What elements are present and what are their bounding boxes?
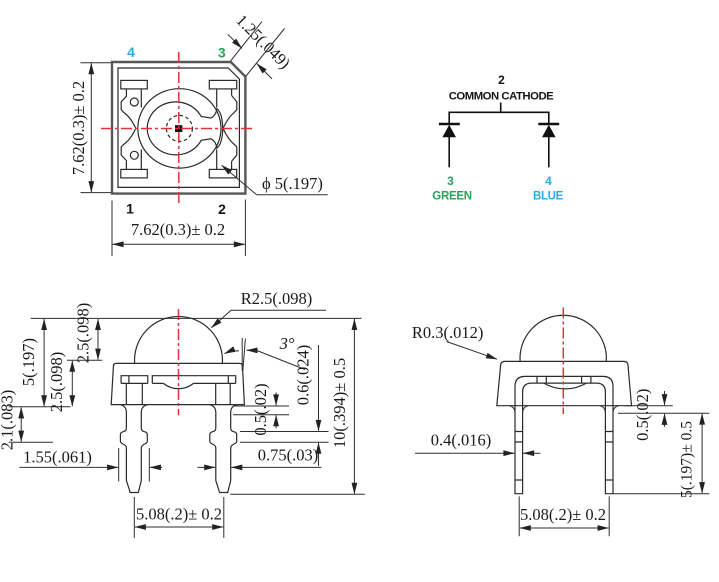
diode D2 triangle (blue LED) <box>542 125 556 137</box>
svg-text:1.55(.061): 1.55(.061) <box>23 448 92 467</box>
red centerline (side) <box>562 308 564 415</box>
package body (front) <box>111 363 244 404</box>
svg-text:7.62(0.3)± 0.2: 7.62(0.3)± 0.2 <box>69 81 88 175</box>
lens outline ellipse <box>138 89 221 168</box>
package body (side) <box>497 361 632 405</box>
diode D1 cathode bar <box>439 123 460 125</box>
svg-text:3: 3 <box>447 174 454 188</box>
dimension 2.5 lower: arrow line <box>71 361 73 406</box>
lead-frame tab bar, pin 1 corner (bottom-left) <box>121 149 148 178</box>
epoxy dome (front) <box>135 316 223 363</box>
dimension 0.5 side: reference lines <box>618 406 709 414</box>
dimension 0.5: reference lines <box>233 406 289 415</box>
phi5 leader underline <box>257 194 328 196</box>
svg-text:1.25(.049): 1.25(.049) <box>232 11 294 73</box>
svg-text:4: 4 <box>545 174 552 188</box>
svg-text:ϕ 5(.197): ϕ 5(.197) <box>262 174 323 193</box>
pad lower edge left <box>121 382 148 384</box>
right lead (side) <box>605 386 613 493</box>
wire anode lead D2 <box>548 137 550 168</box>
red centerline horizontal (top view) <box>101 128 255 130</box>
red centerline vertical (top view) <box>178 52 180 205</box>
dimension 7.62 bottom: arrow line <box>113 243 245 245</box>
wire anode lead D1 <box>448 137 450 168</box>
reflector cup C-shape <box>147 102 222 155</box>
svg-text:0.5(.02): 0.5(.02) <box>633 389 652 441</box>
chamfer dimension extension line B <box>246 29 285 77</box>
svg-text:3°: 3° <box>279 334 295 353</box>
svg-text:R0.3(.012): R0.3(.012) <box>412 323 484 342</box>
dimension 5.08 side: arrow line <box>520 527 609 529</box>
dimension 2.1: arrow line <box>20 407 22 441</box>
dimension 0.4: left arrow with tail <box>415 452 514 454</box>
lead-frame tab bar, pin 2 corner (bottom-right) <box>209 149 236 178</box>
reference line collar bottom left <box>9 441 53 443</box>
svg-text:10(.394)± 0.5: 10(.394)± 0.5 <box>330 358 349 448</box>
dimension 1.55: right arrow <box>150 466 162 468</box>
left lead inside body (front) <box>126 383 142 404</box>
svg-text:1: 1 <box>126 201 134 217</box>
R2.5 leader <box>211 310 326 328</box>
left lead with collar and tip (front) <box>120 405 147 493</box>
red centerline (front) <box>178 309 180 415</box>
dimension 0.4: right arrow <box>523 452 540 454</box>
tab hole bottom-left <box>130 151 138 159</box>
wire stub from label <box>500 103 502 113</box>
svg-text:0.75(.03): 0.75(.03) <box>258 446 319 465</box>
dimension 5(.197): arrow line <box>43 319 45 406</box>
lead flare fillets at body bottom <box>509 406 618 412</box>
svg-text:7.62(0.3)± 0.2: 7.62(0.3)± 0.2 <box>131 220 225 239</box>
left lead (side) <box>515 386 523 493</box>
draft angle reference lines <box>242 338 245 371</box>
right lead with collar and tip (front) <box>210 405 237 493</box>
svg-text:2.5(.098): 2.5(.098) <box>74 303 93 364</box>
dimension 0.5: arrows <box>275 393 277 406</box>
svg-text:BLUE: BLUE <box>533 191 564 203</box>
svg-text:5(.197)± 0.5: 5(.197)± 0.5 <box>679 421 696 498</box>
lead frame upper line (side) <box>515 376 613 386</box>
svg-text:5.08(.2)± 0.2: 5.08(.2)± 0.2 <box>520 505 606 524</box>
svg-text:GREEN: GREEN <box>432 191 471 203</box>
dimension 0.5 side: arrows <box>664 391 666 405</box>
phi5 leader arrow <box>222 165 257 195</box>
dimension 7.62 bottom: extension lines <box>112 200 245 257</box>
svg-text:5(.197): 5(.197) <box>19 338 38 386</box>
R0.3 leader arrow <box>447 342 498 360</box>
dimension 5.08 side: extension lines <box>519 496 609 536</box>
diode D1 triangle (green LED) <box>442 125 456 137</box>
dimension 0.75: left arrow <box>198 466 216 468</box>
chamfer dimension arrow lower <box>257 64 272 79</box>
dimension 5(.197) side: bottom reference line <box>613 493 709 495</box>
dimension 1.55: left arrow with tail <box>19 466 118 468</box>
left frame cutout upper <box>121 96 136 129</box>
dimension 10: arrow line <box>353 319 355 494</box>
svg-text:4: 4 <box>127 44 135 60</box>
dimension 5.08 front: extension lines <box>134 497 224 538</box>
right frame cutout upper <box>223 96 237 129</box>
dimension 2.5 upper: arrow line <box>97 319 99 360</box>
wire common cathode bus <box>449 111 549 113</box>
svg-text:5.08(.2)± 0.2: 5.08(.2)± 0.2 <box>136 505 222 524</box>
angle leader <box>257 350 306 369</box>
chamfer dimension extension line A <box>231 22 262 61</box>
svg-text:2.1(.083): 2.1(.083) <box>0 390 17 451</box>
chamfer dimension arrow upper <box>228 34 242 48</box>
lead notch ticks left lead <box>515 432 523 481</box>
right lead inside body (front) <box>216 383 231 404</box>
diode D2 cathode bar <box>538 123 559 125</box>
dimension 0.6: arrows <box>318 345 320 431</box>
svg-text:0.4(.016): 0.4(.016) <box>431 431 492 450</box>
wire left drop to diode D1 <box>448 112 450 125</box>
top reference line (dome apex) <box>31 317 362 319</box>
angle arc arrow left <box>224 351 239 354</box>
dimension 7.62 left: extension ticks <box>81 63 112 193</box>
dimension 1.55: extension lines <box>119 448 150 482</box>
angle arc arrow right <box>247 349 257 351</box>
lead frame lower line (side) <box>523 383 606 392</box>
svg-text:COMMON CATHODE: COMMON CATHODE <box>449 91 554 103</box>
lead-frame tab bar, pin 4 corner (top-left) <box>121 80 148 107</box>
epoxy dome (side) <box>520 315 606 361</box>
dimension 0.6: reference lines <box>240 432 329 443</box>
reflector bowl bottom (side) <box>544 383 587 389</box>
dimension 0.75: right arrow with tail <box>231 466 321 468</box>
dimension 5.08 front: arrow line <box>135 526 223 528</box>
reference line seating left <box>9 406 71 408</box>
dimension 7.62 left: arrow line <box>90 63 92 192</box>
svg-text:0.5(.02): 0.5(.02) <box>251 383 270 435</box>
wire right drop to diode D2 <box>548 112 550 125</box>
svg-text:3: 3 <box>218 45 226 61</box>
pad divider ticks (side) <box>537 376 591 383</box>
svg-text:2: 2 <box>218 201 226 217</box>
reference line lens base <box>67 359 102 361</box>
die dashed circle <box>166 115 192 141</box>
top view outer square body with chamfer <box>112 62 245 194</box>
lead frame pad right (front) <box>152 376 235 384</box>
svg-text:2.5(.098): 2.5(.098) <box>47 352 66 413</box>
top view inner square wall <box>118 68 239 187</box>
dimension 10: bottom reference line <box>230 493 364 495</box>
pad lower edge right <box>152 382 235 384</box>
lead frame pad left (front) <box>121 376 148 384</box>
svg-text:0.6(.024): 0.6(.024) <box>294 345 313 406</box>
lead-frame tab bar, pin 3 corner (top-right) <box>209 80 236 107</box>
left frame cutout lower <box>121 128 136 161</box>
svg-text:2: 2 <box>498 73 505 87</box>
reflector bowl bottom (front) <box>163 383 193 388</box>
dimension 5(.197) side: arrow line <box>701 414 703 494</box>
lead notch ticks right lead <box>605 432 613 481</box>
right frame cutout lower <box>223 128 237 161</box>
svg-text:R2.5(.098): R2.5(.098) <box>241 289 313 308</box>
LED die (black square) <box>175 125 182 132</box>
tab hole top-left <box>130 98 138 106</box>
